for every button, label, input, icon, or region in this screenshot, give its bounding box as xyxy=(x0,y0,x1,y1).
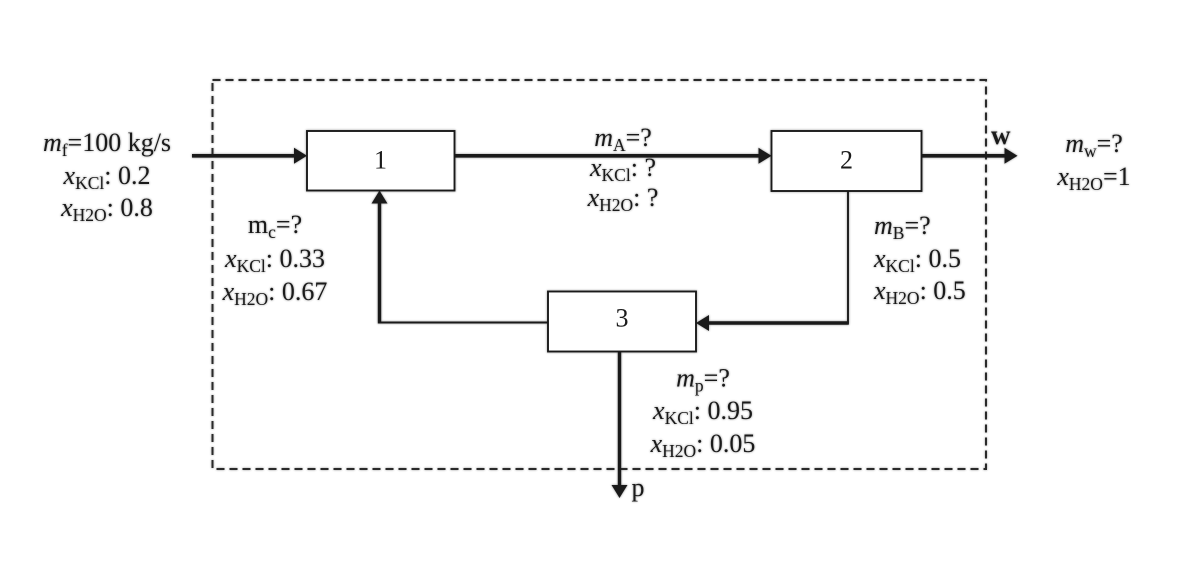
svg-text:w: w xyxy=(991,120,1011,150)
arrow box1 to box2 xyxy=(455,154,761,158)
unit box 2 xyxy=(772,131,922,191)
arrow box2 to w xyxy=(922,154,1007,158)
system boundary dashed box xyxy=(213,80,987,469)
wire box2 down xyxy=(847,191,849,324)
arrow into box 3 from right xyxy=(707,321,849,324)
unit box 3 xyxy=(548,292,696,352)
svg-text:3: 3 xyxy=(616,304,629,333)
wire box3 to recycle corner xyxy=(379,322,549,324)
svg-text:2: 2 xyxy=(840,146,853,175)
svg-text:mp=?: mp=? xyxy=(676,364,730,396)
unit box 1 xyxy=(307,131,455,191)
svg-text:1: 1 xyxy=(374,146,387,175)
svg-text:p: p xyxy=(632,473,645,502)
svg-text:mc=?: mc=? xyxy=(248,210,302,242)
feed arrow into box 1 xyxy=(192,154,296,158)
recycle arrow up into box 1 xyxy=(378,202,381,324)
product arrow down from box 3 xyxy=(618,352,621,488)
